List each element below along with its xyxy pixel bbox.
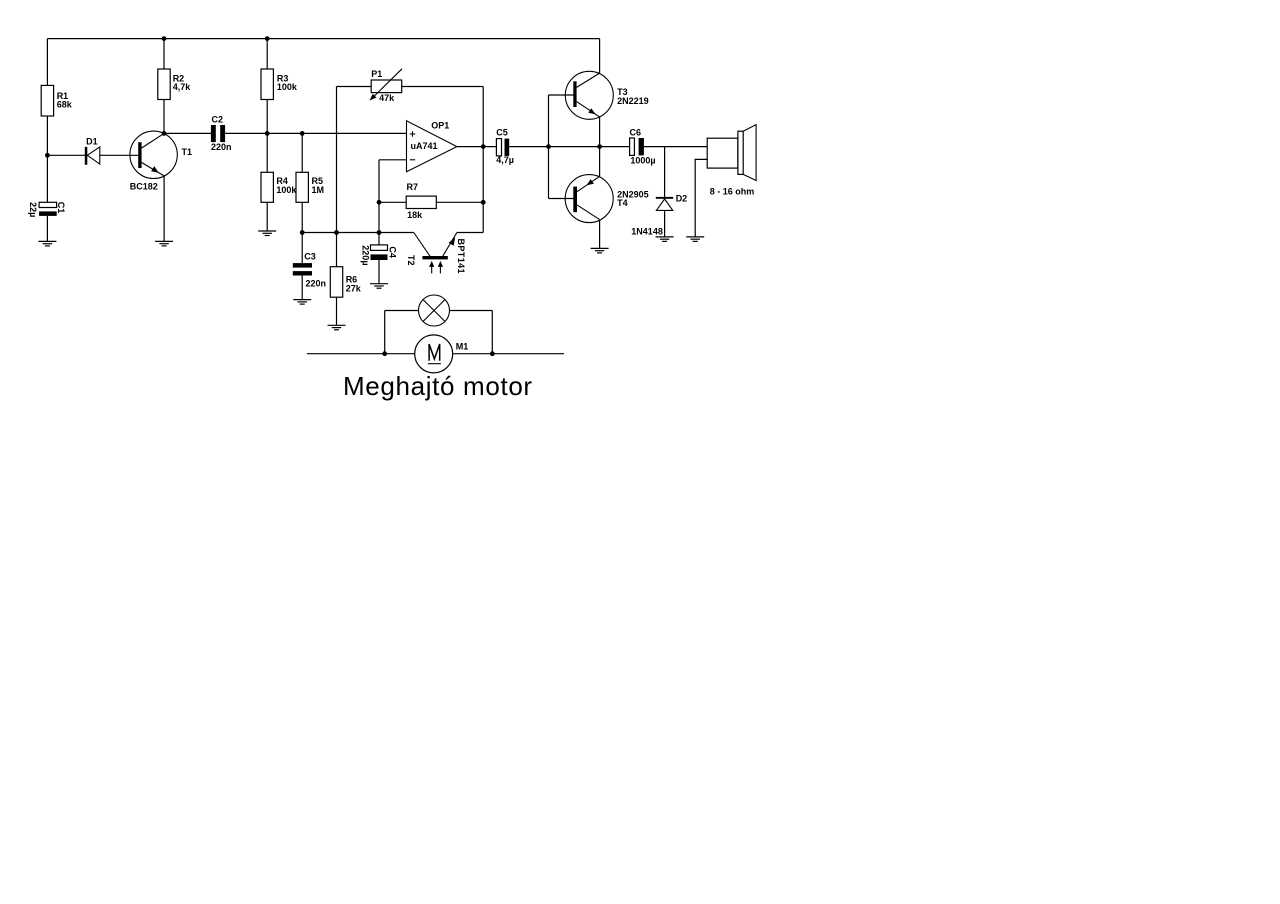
wire speaker second lead xyxy=(695,159,707,237)
wire D2 to ground xyxy=(664,210,666,237)
wire D1 to T1 base xyxy=(100,154,139,156)
svg-text:1N4148: 1N4148 xyxy=(631,227,663,237)
ground under T4 xyxy=(591,248,609,253)
wire top supply rail xyxy=(47,38,599,40)
svg-text:27k: 27k xyxy=(346,283,362,293)
svg-text:47k: 47k xyxy=(379,93,395,103)
wire op-amp output xyxy=(457,146,497,148)
ground under D2 xyxy=(656,237,674,242)
wire R1 bottom to C1 through node xyxy=(46,116,48,202)
svg-text:8 - 16 ohm: 8 - 16 ohm xyxy=(710,187,755,197)
wire low node to R6 xyxy=(336,233,338,267)
svg-text:BPT141: BPT141 xyxy=(456,239,466,274)
node motor line left xyxy=(382,351,387,356)
lamp xyxy=(419,295,450,326)
resistor R7 xyxy=(406,182,436,220)
wire lower feedback line xyxy=(302,232,414,234)
node R7 left xyxy=(377,200,382,205)
node rail R3 xyxy=(265,36,270,41)
svg-text:OP1: OP1 xyxy=(431,120,449,130)
wire bases vertical xyxy=(548,95,550,199)
node R1/D1/C1 xyxy=(45,153,50,158)
svg-text:22µ: 22µ xyxy=(28,202,38,217)
svg-text:M1: M1 xyxy=(456,341,469,351)
svg-text:T2: T2 xyxy=(406,255,416,266)
ground under C1 xyxy=(38,241,56,246)
loudspeaker 8-16 ohm xyxy=(707,125,756,197)
ground under R4 xyxy=(258,231,276,236)
svg-text:D2: D2 xyxy=(676,194,688,204)
wire lamp right lead xyxy=(450,310,493,312)
wire T1 emitter down xyxy=(163,176,165,242)
wire R2 top xyxy=(163,39,165,69)
node R7 right xyxy=(481,200,486,205)
wire T3 emitter down xyxy=(599,117,601,147)
svg-text:2N2219: 2N2219 xyxy=(617,96,649,106)
wire P1 left lead xyxy=(337,86,372,88)
motor M1 xyxy=(415,335,469,373)
wire C2 to op-amp plus input xyxy=(225,132,406,134)
svg-text:T4: T4 xyxy=(617,198,628,208)
transistor T3 2N2219 xyxy=(565,71,648,119)
wire corner to T2 emitter xyxy=(457,232,483,234)
capacitor C1 xyxy=(28,202,66,218)
svg-text:1M: 1M xyxy=(312,185,325,195)
wire R2 bottom to collector node xyxy=(163,100,165,134)
wire op-amp minus input xyxy=(379,159,407,161)
wire lamp left vertical xyxy=(384,311,386,354)
svg-text:4,7k: 4,7k xyxy=(173,82,192,92)
wire C6 to speaker xyxy=(644,146,707,148)
wire R7 left lead xyxy=(379,201,406,203)
wire R5 top xyxy=(301,133,303,172)
svg-text:C4: C4 xyxy=(388,246,398,258)
svg-text:C6: C6 xyxy=(630,127,642,137)
svg-text:100k: 100k xyxy=(277,82,298,92)
ground under T1 xyxy=(155,241,173,246)
node P1 left vertical low xyxy=(334,230,339,235)
svg-text:68k: 68k xyxy=(57,100,73,110)
wire T4 base lead xyxy=(549,198,574,200)
svg-text:uA741: uA741 xyxy=(411,141,438,151)
wire collector node to C2 xyxy=(164,132,211,134)
ground under speaker xyxy=(686,237,704,242)
wire R4 bottom to ground xyxy=(266,202,268,231)
wire motor line right xyxy=(453,353,564,355)
wire C4 to ground xyxy=(378,260,380,284)
wire T4 collector to ground xyxy=(599,220,601,249)
wire D2 top xyxy=(664,147,666,197)
resistor R1 xyxy=(41,85,53,116)
wire left branch from rail to R1 xyxy=(46,39,48,86)
resistor R6 xyxy=(330,267,361,298)
capacitor C4 xyxy=(361,245,398,266)
wire right feedback vertical xyxy=(482,87,484,233)
transistor T1 BC182 xyxy=(130,131,192,192)
resistor R5 xyxy=(296,172,324,202)
svg-text:Meghajtó motor: Meghajtó motor xyxy=(343,371,533,401)
svg-text:1000µ: 1000µ xyxy=(630,155,655,165)
resistor R3 xyxy=(261,69,298,100)
svg-text:4,7µ: 4,7µ xyxy=(496,155,514,165)
wire minus vertical to C4 xyxy=(378,160,380,245)
diode D1 xyxy=(85,136,100,164)
svg-text:C3: C3 xyxy=(304,251,316,261)
capacitor C5 xyxy=(496,128,514,165)
wire R5 bottom to C3 xyxy=(301,202,303,263)
svg-text:220µ: 220µ xyxy=(361,245,371,265)
wire motor line left xyxy=(307,353,415,355)
wire R7 right lead xyxy=(436,201,483,203)
svg-text:BC182: BC182 xyxy=(130,182,158,192)
svg-text:220n: 220n xyxy=(306,279,327,289)
svg-text:P1: P1 xyxy=(371,69,382,79)
resistor R2 xyxy=(158,69,191,100)
resistor R4 xyxy=(261,172,297,202)
op-amp U1 OP1 uA741 xyxy=(407,120,457,171)
ground under C4 xyxy=(370,284,388,289)
capacitor C3 xyxy=(293,251,326,288)
wire node to D1 xyxy=(47,154,85,156)
node bases vertical xyxy=(546,144,551,149)
wire lamp right vertical xyxy=(491,311,493,354)
wire R3 top xyxy=(266,39,268,69)
wire C1 to ground xyxy=(46,216,48,242)
node T1 collector xyxy=(162,131,167,136)
capacitor C2 xyxy=(211,114,232,151)
wire T4 emitter up xyxy=(599,147,601,177)
node C4 top xyxy=(377,230,382,235)
wire lamp left lead xyxy=(385,310,419,312)
svg-text:220n: 220n xyxy=(211,142,232,152)
wire C3 to ground xyxy=(301,276,303,300)
wire P1 left vertical xyxy=(336,87,338,233)
svg-text:18k: 18k xyxy=(407,210,423,220)
capacitor C6 xyxy=(630,127,656,165)
transistor T4 2N2905 xyxy=(565,175,648,223)
node rail R2 xyxy=(162,36,167,41)
ground under R6 xyxy=(328,325,346,330)
svg-text:C1: C1 xyxy=(56,202,66,214)
node R5 low line xyxy=(300,230,305,235)
svg-text:C2: C2 xyxy=(212,114,224,124)
diode D2 1N4148 xyxy=(631,194,687,237)
svg-text:C5: C5 xyxy=(496,128,508,138)
phototransistor T2 BPT141 xyxy=(406,233,466,274)
node motor line right xyxy=(490,351,495,356)
ground under C3 xyxy=(293,300,311,305)
wire C5 to C6 xyxy=(509,146,629,148)
node output xyxy=(481,144,486,149)
wire R4 top xyxy=(266,133,268,172)
wire T3 base lead xyxy=(549,94,574,96)
wire P1 right lead xyxy=(402,86,484,88)
svg-text:100k: 100k xyxy=(276,185,297,195)
node emitters xyxy=(597,144,602,149)
wire R6 bottom to ground xyxy=(336,297,338,325)
svg-text:D1: D1 xyxy=(86,136,98,146)
wire R3 bottom xyxy=(266,100,268,134)
svg-text:R7: R7 xyxy=(407,182,419,192)
node R5 top xyxy=(300,131,305,136)
potentiometer P1 xyxy=(370,69,402,103)
node R3 R4 xyxy=(265,131,270,136)
svg-text:T1: T1 xyxy=(182,147,193,157)
wire T3 collector to rail xyxy=(599,39,601,74)
